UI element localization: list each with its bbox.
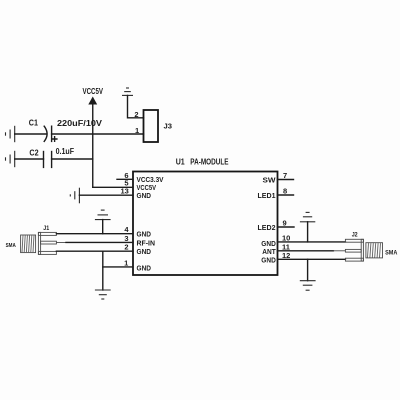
svg-text:C1: C1	[29, 119, 39, 128]
svg-text:220uF/10V: 220uF/10V	[57, 119, 103, 128]
threaded barrel with hatch	[21, 235, 36, 253]
wire SMA pin to U1 pin 3 RF-IN	[66, 241, 133, 243]
svg-text:3: 3	[124, 234, 128, 243]
wire SMA shell bottom to U1 pin 2	[56, 250, 133, 252]
svg-text:10: 10	[282, 233, 290, 242]
threaded barrel with hatch	[366, 243, 383, 258]
svg-text:GND: GND	[261, 258, 276, 265]
svg-text:C2: C2	[29, 148, 39, 157]
connector J2 SMA (right)	[345, 233, 397, 262]
svg-text:U1: U1	[176, 157, 185, 166]
shell bracket	[345, 239, 363, 242]
U1 pin 10 GND	[261, 233, 290, 247]
svg-text:VCC3.3V: VCC3.3V	[137, 177, 164, 184]
svg-text:RF-IN: RF-IN	[137, 240, 156, 247]
wire C2 to VCC5V net	[52, 158, 93, 160]
ground (U1 pin 13, pointing left)	[70, 188, 79, 204]
ground (left upper, pointing up)	[95, 210, 111, 220]
wire pin-2 node down to lower ground through pin 1	[102, 251, 104, 290]
connector J1 SMA (left)	[6, 226, 67, 254]
svg-text:1: 1	[135, 126, 139, 135]
ground (C1 left)	[6, 126, 15, 142]
wire J3 pin 2 to ground	[128, 95, 144, 117]
svg-text:GND: GND	[137, 249, 152, 256]
svg-text:LED1: LED1	[258, 193, 276, 200]
U1 pin 11 ANT	[262, 242, 290, 256]
U1 pin 12 GND	[261, 251, 290, 265]
svg-text:GND: GND	[137, 265, 152, 272]
ground (C2 left)	[6, 151, 15, 167]
svg-text:1: 1	[124, 258, 128, 267]
U1 pin 6 VCC3.3V stub	[117, 171, 164, 184]
wire ground down to pin-10 node	[307, 222, 309, 242]
wire C2 to ground	[15, 158, 44, 160]
svg-text:LED2: LED2	[258, 225, 276, 232]
connector J3	[144, 110, 173, 142]
wire C1 to ground	[15, 133, 46, 135]
wire U1 pin 10 to SMA shell top	[278, 241, 346, 243]
svg-text:J3: J3	[164, 121, 173, 130]
centre pin	[345, 249, 361, 252]
ground (right lower, pointing down)	[300, 281, 316, 291]
wire SMA shell top to U1 pin 4	[56, 233, 133, 235]
U1 pin 1 GND wire	[103, 258, 151, 272]
U1 pin 8 LED1 stub	[258, 187, 294, 200]
svg-text:9: 9	[283, 219, 287, 228]
shell bracket	[38, 232, 56, 235]
capacitor C1 220uF/10V	[29, 119, 103, 142]
svg-text:2: 2	[134, 110, 138, 119]
ground (left lower, pointing down)	[95, 290, 111, 299]
svg-text:GND: GND	[261, 241, 276, 248]
U1 pin 3 RF-IN	[124, 234, 155, 247]
wire VCC5V net vertical	[92, 104, 94, 187]
wire U1 pin 11 ANT to SMA pin	[278, 250, 334, 252]
svg-text:SW: SW	[263, 177, 276, 184]
svg-text:7: 7	[283, 171, 287, 180]
svg-text:0.1uF: 0.1uF	[56, 147, 75, 156]
capacitor C2 0.1uF	[29, 147, 74, 167]
svg-text:VCC5V: VCC5V	[137, 185, 157, 192]
svg-text:4: 4	[124, 225, 129, 234]
ground (right upper, pointing up)	[300, 212, 315, 221]
svg-text:8: 8	[283, 187, 287, 196]
ground (J3 pin 2, pointing up)	[122, 88, 133, 95]
wire U1 pin 12 to SMA shell bottom	[278, 258, 346, 260]
wire ground down to pin-4 node	[102, 220, 104, 234]
centre pin	[41, 241, 57, 244]
svg-text:VCC5V: VCC5V	[83, 87, 104, 96]
U1 pin 7 SW stub	[263, 171, 294, 184]
power flag VCC5V	[83, 87, 104, 105]
svg-text:SMA: SMA	[6, 243, 16, 249]
IC U1 PA-MODULE body	[133, 172, 278, 276]
U1 pin 5 VCC5V	[93, 179, 157, 192]
U1 pin 9 LED2 stub	[258, 219, 295, 232]
svg-text:J2: J2	[352, 233, 359, 239]
svg-text:2: 2	[124, 243, 128, 252]
svg-text:12: 12	[282, 251, 290, 260]
svg-text:GND: GND	[137, 193, 152, 200]
wire pin-12 node down to lower ground	[307, 259, 309, 280]
svg-text:J1: J1	[43, 226, 50, 232]
svg-text:13: 13	[120, 186, 128, 195]
svg-text:GND: GND	[137, 232, 152, 239]
U1 pin 13 GND wire	[79, 186, 151, 200]
svg-text:PA-MODULE: PA-MODULE	[190, 157, 229, 166]
U1 pin 2 GND	[124, 243, 151, 256]
U1 pin 4 GND	[124, 225, 151, 238]
svg-text:ANT: ANT	[262, 249, 276, 256]
wire C1 / VCC5V node / J3 pin 1	[52, 133, 144, 135]
SMA J2 centre-pin lead	[333, 250, 345, 252]
svg-text:SMA: SMA	[385, 250, 398, 257]
